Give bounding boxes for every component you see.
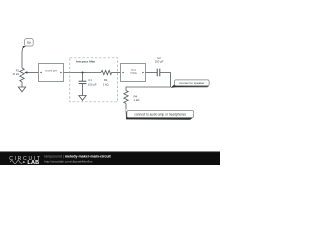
svg-text:9V: 9V <box>27 41 32 45</box>
svg-text:low pass filter: low pass filter <box>76 60 96 64</box>
potentiometer R2 <box>12 68 27 82</box>
low pass filter dashed box <box>70 58 118 102</box>
CircuitLab logo <box>9 156 42 166</box>
svg-text:100 µF: 100 µF <box>88 82 97 86</box>
node junction <box>82 72 84 74</box>
svg-text:10 kΩ: 10 kΩ <box>12 73 19 76</box>
svg-text:LAB: LAB <box>27 160 39 165</box>
wire from 9V to R2 <box>21 48 24 68</box>
wire box1 to R1 <box>64 72 102 74</box>
svg-text:R1: R1 <box>104 78 108 82</box>
svg-text:connect to audio amp or headph: connect to audio amp or headphones <box>134 113 186 117</box>
capacitor C1 <box>79 73 97 96</box>
svg-text:lampsound | melody-maker-main-: lampsound | melody-maker-main-circuit <box>44 155 111 159</box>
wire C2 to corner <box>160 73 171 88</box>
resistor R4 <box>124 91 140 104</box>
svg-text:TONE: TONE <box>130 72 137 75</box>
svg-text:http://circuitlab.com/c6pcwb4d: http://circuitlab.com/c6pcwb4dm3vs <box>44 159 93 163</box>
svg-text:1 kΩ: 1 kΩ <box>134 98 140 102</box>
capacitor C2 <box>155 56 164 76</box>
callout connect to audio amp or headphones <box>126 109 194 120</box>
svg-text:connect to speaker: connect to speaker <box>179 81 204 85</box>
footer bar <box>0 151 220 165</box>
svg-text:100 µF: 100 µF <box>155 60 164 64</box>
footer text <box>44 155 111 164</box>
wire wiper to box1 <box>27 72 39 74</box>
svg-text:1 kΩ: 1 kΩ <box>103 82 109 86</box>
wire box2 to C2 <box>146 72 158 74</box>
svg-text:sound gen: sound gen <box>45 68 58 72</box>
wire R4 to callout <box>125 104 127 110</box>
subcircuit box2 <box>121 64 146 82</box>
callout connect to speaker <box>171 80 210 88</box>
subcircuit box1 <box>39 64 64 82</box>
ground G2 <box>79 96 86 101</box>
wire R1 to box2 <box>112 72 121 74</box>
ground G1 <box>18 87 25 92</box>
wire corner to R4 <box>126 87 171 91</box>
callout 9V <box>22 39 33 49</box>
resistor R1 <box>101 70 112 86</box>
wire R2 bottom to ground <box>21 82 23 87</box>
